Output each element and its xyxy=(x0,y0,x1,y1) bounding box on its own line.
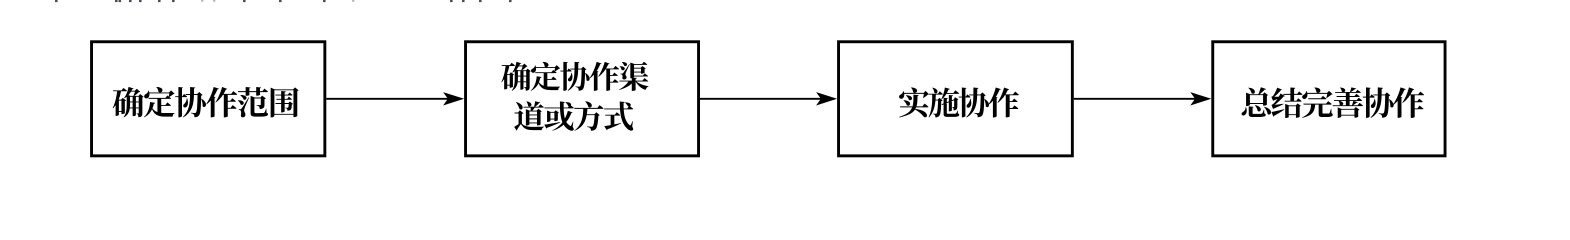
text: 确定协作渠 xyxy=(501,62,648,91)
text: 确定协作范围 xyxy=(113,87,299,117)
cropped text-line fragments at top edge xyxy=(55,0,512,2)
box 4: 总结完善协作 xyxy=(1213,42,1445,156)
arrow 1 xyxy=(326,92,464,105)
arrow 3 xyxy=(1074,92,1212,105)
box 1: 确定协作范围 xyxy=(92,42,325,156)
text: 道或方式 xyxy=(514,101,633,131)
box 2: 确定协作渠道或方式 xyxy=(466,42,699,156)
arrow 2 xyxy=(700,92,837,105)
box 3: 实施协作 xyxy=(839,42,1073,156)
text: 实施协作 xyxy=(899,87,1019,117)
text: 总结完善协作 xyxy=(1242,87,1425,118)
